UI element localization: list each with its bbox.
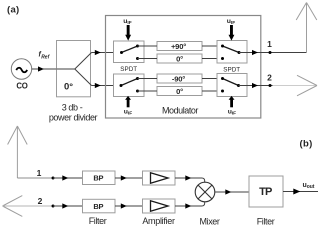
arrowhead channel 1	[95, 50, 101, 55]
svg-text:(b): (b)	[300, 138, 313, 149]
arrowhead BP2 out	[121, 203, 127, 208]
svg-text:0°: 0°	[64, 82, 73, 93]
wire divider to SPDT A	[92, 52, 122, 54]
control arrow uIF A	[125, 25, 131, 41]
arrowhead on CO wire	[38, 66, 44, 71]
svg-text:TP: TP	[259, 186, 272, 198]
wire C upper contact to -90	[138, 78, 158, 80]
oscillator CO	[11, 59, 31, 91]
svg-text:Amplifier: Amplifier	[142, 216, 175, 226]
control arrow uIF C	[125, 96, 131, 107]
wire SPDT D to node 2	[239, 85, 273, 87]
svg-text:2: 2	[267, 73, 272, 83]
svg-text:Filter: Filter	[257, 217, 275, 227]
wire C lower contact to 0	[138, 90, 158, 92]
antenna 1 (vertical)	[296, 3, 317, 53]
wire TP to output	[283, 191, 318, 193]
label uIF A	[123, 18, 131, 26]
modulator outer box	[106, 16, 261, 119]
node 2	[269, 84, 272, 87]
wire antenna 3 to node	[17, 177, 53, 179]
control arrow uIF D	[229, 96, 235, 107]
arrowhead output 2	[252, 83, 258, 88]
wire antenna 4 to node	[3, 205, 54, 207]
wire BP1 to amplifier 1	[115, 177, 143, 179]
wire mixer to TP	[215, 191, 249, 193]
svg-text:BP: BP	[93, 174, 103, 183]
amplifier 1	[143, 171, 176, 185]
power divider box	[57, 41, 91, 97]
wire 0 to SPDT B	[202, 58, 223, 60]
svg-text:out: out	[307, 184, 315, 190]
arrowhead BP1 out	[121, 175, 127, 180]
filter BP1	[83, 171, 116, 185]
antenna 4 (horizontal receive)	[3, 196, 23, 217]
amplifier 2	[143, 199, 176, 213]
switch SPDT A (top-left)	[114, 41, 145, 63]
svg-text:Filter: Filter	[89, 216, 107, 226]
wire BP2 to amplifier 2	[115, 205, 143, 207]
label uIF D	[228, 108, 236, 116]
svg-text:IF: IF	[231, 20, 235, 26]
mixer	[195, 182, 215, 202]
wire A upper contact to +90	[138, 45, 158, 47]
label uout	[303, 182, 315, 190]
wire amplifier 1 to mixer	[175, 178, 205, 182]
antenna 2 (horizontal)	[297, 75, 317, 96]
arrowhead channel 2	[95, 83, 101, 88]
arrowhead output 1	[252, 50, 258, 55]
node 1	[269, 51, 272, 54]
label fRef	[39, 52, 51, 61]
phase shifter 0 (ch2)	[157, 87, 202, 96]
svg-text:IF: IF	[128, 111, 132, 117]
arrowhead uout	[293, 189, 300, 195]
svg-text:power divider: power divider	[49, 113, 98, 123]
svg-text:SPDT: SPDT	[120, 66, 137, 73]
svg-text:2: 2	[38, 196, 43, 206]
divider caption	[49, 103, 98, 123]
svg-text:Ref: Ref	[41, 54, 50, 60]
arrowhead amp2 out	[185, 203, 191, 208]
arrowhead mixer out	[225, 189, 231, 194]
wire A lower contact to 0	[138, 58, 158, 60]
wire amplifier 2 to mixer	[175, 202, 205, 206]
arrowhead amp1 out	[185, 175, 191, 180]
wire CO to divider	[32, 68, 57, 70]
label uIF B	[227, 18, 235, 26]
svg-text:BP: BP	[93, 202, 103, 211]
arrowhead rx2	[62, 203, 68, 208]
svg-text:IF: IF	[232, 110, 236, 116]
wire divider internal split	[57, 53, 92, 86]
svg-text:IF: IF	[127, 20, 131, 26]
wire SPDT B to antenna 1	[239, 52, 307, 54]
svg-text:0°: 0°	[176, 54, 183, 63]
svg-text:1: 1	[267, 39, 272, 49]
svg-text:SPDT: SPDT	[223, 67, 240, 74]
svg-text:0°: 0°	[176, 87, 183, 96]
control arrow uIF B	[229, 25, 235, 41]
switch SPDT D (bottom-right)	[217, 74, 247, 97]
wire -90 to SPDT D	[202, 78, 223, 80]
wire 0 to SPDT D	[202, 90, 223, 92]
phase shifter -90	[157, 74, 202, 83]
svg-text:+90°: +90°	[171, 42, 186, 51]
switch SPDT B (top-right)	[217, 41, 247, 64]
svg-text:1: 1	[37, 168, 42, 178]
filter BP2	[83, 199, 116, 213]
phase shifter +90	[157, 42, 202, 51]
svg-text:Mixer: Mixer	[200, 217, 220, 227]
node rx2	[52, 205, 55, 208]
node rx1	[52, 177, 55, 180]
antenna 3 (vertical receive)	[8, 126, 28, 178]
svg-text:Modulator: Modulator	[162, 106, 198, 116]
svg-text:3 db -: 3 db -	[62, 103, 83, 113]
arrowhead rx1	[62, 175, 68, 180]
svg-text:-90°: -90°	[172, 74, 185, 83]
wire node to BP2	[53, 205, 83, 207]
wire node to BP1	[53, 177, 83, 179]
phase shifter 0 (ch1)	[157, 54, 202, 63]
wire node 2 to antenna 2	[273, 85, 318, 87]
svg-text:(a): (a)	[7, 5, 20, 16]
filter TP	[249, 176, 283, 207]
label uIF C	[124, 109, 132, 117]
switch SPDT C (bottom-left)	[114, 74, 145, 97]
wire divider to SPDT C	[92, 85, 122, 87]
svg-text:CO: CO	[16, 81, 27, 90]
wire +90 to SPDT B	[202, 45, 223, 47]
